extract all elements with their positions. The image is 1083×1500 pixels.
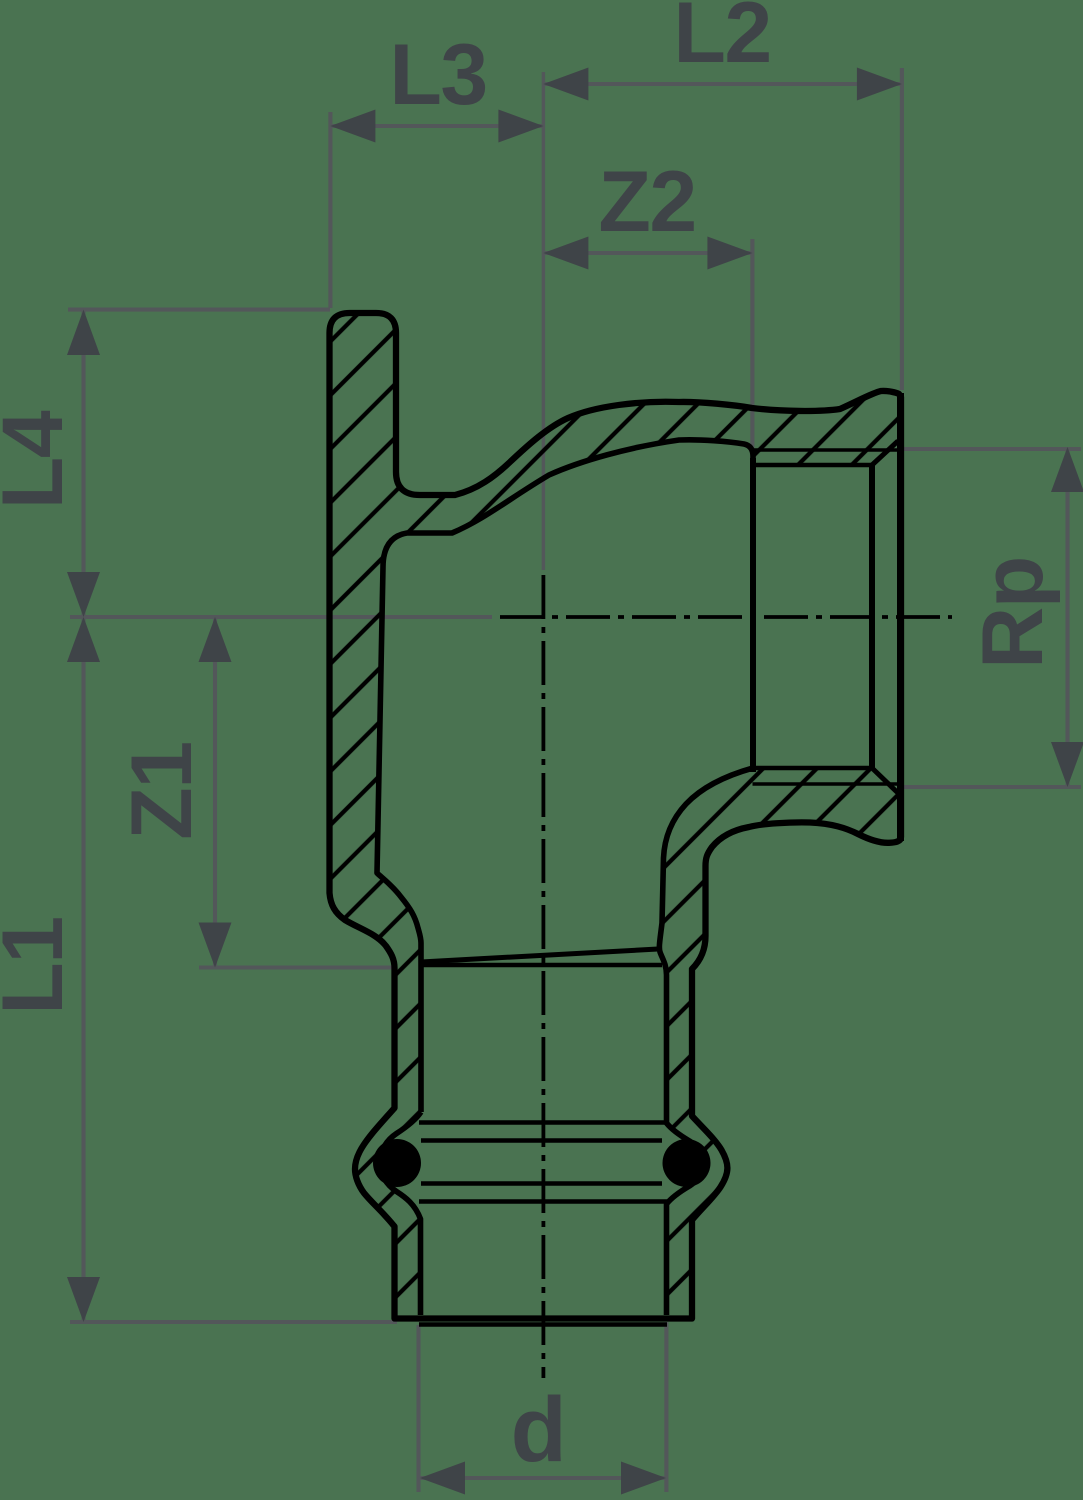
dim line L2 <box>543 82 902 86</box>
arrow d right <box>621 1462 666 1495</box>
centerline horizontal <box>500 615 952 619</box>
arrow L4 bottom (down) <box>67 572 100 617</box>
arrow L2 left <box>543 68 588 101</box>
arrow L1 bottom (down) <box>67 1277 100 1322</box>
arrow d left <box>420 1462 465 1495</box>
inner contour <box>377 440 753 1315</box>
thread major thin bottom <box>753 782 898 786</box>
ext line d right <box>664 1322 668 1492</box>
svg-text:Rp: Rp <box>965 557 1061 669</box>
ext line Z1 bottom <box>199 965 394 969</box>
groove line 4 <box>419 1199 667 1204</box>
bottom rim far edge <box>419 1322 667 1327</box>
dim line Z1 vertical <box>213 617 217 968</box>
ext line L3 left <box>328 112 332 308</box>
arrow L3 right <box>498 110 543 143</box>
cone near edge <box>421 963 662 968</box>
socket interior lines <box>753 393 901 841</box>
arrow Rp bottom (down) <box>1051 742 1083 787</box>
arrow Z1 top (up) <box>199 617 232 662</box>
arrow Z2 left <box>543 237 588 270</box>
arrow L4 top (up) <box>67 310 100 355</box>
ext line centerline level y617 <box>70 615 492 619</box>
ext line Rp bottom <box>899 785 1081 789</box>
arrow Z2 right <box>707 237 752 270</box>
dim line Rp <box>1065 447 1069 787</box>
dim line L1/L4 vertical <box>81 310 85 1322</box>
ext line Rp top <box>899 447 1081 451</box>
svg-text:Z2: Z2 <box>598 154 695 250</box>
arrow L2 right <box>857 68 902 101</box>
svg-text:Z1: Z1 <box>114 742 210 839</box>
ext/center vertical upper <box>542 72 545 570</box>
chamfer diagonal bottom <box>872 768 898 793</box>
o-ring right <box>663 1139 711 1187</box>
svg-text:L1: L1 <box>0 917 81 1014</box>
arrow L3 left <box>330 110 375 143</box>
section hatch region <box>330 313 902 1319</box>
dim line L3 <box>330 124 543 128</box>
svg-text:L4: L4 <box>0 410 81 509</box>
outer contour <box>330 313 902 1319</box>
end face <box>897 393 904 841</box>
socket left face <box>750 458 756 772</box>
ext line top (L4/L1 top) <box>68 308 330 312</box>
dim line Z2 <box>543 251 752 255</box>
o-ring left <box>373 1139 421 1187</box>
ext line L1 bottom <box>70 1320 397 1324</box>
svg-text:d: d <box>511 1379 566 1481</box>
chamfer vertical <box>869 465 875 768</box>
ext line d left <box>416 1325 420 1492</box>
ext line Z2 right <box>750 239 754 454</box>
groove line 1 <box>419 1120 667 1125</box>
arrow L1 top (up) <box>67 617 100 662</box>
press-port interior lines <box>419 949 667 1325</box>
groove line 2 <box>421 1138 662 1143</box>
arrow Rp top (up) <box>1051 447 1083 492</box>
centerline vertical <box>542 575 546 1378</box>
groove line 3 <box>421 1181 662 1186</box>
thread minor line top <box>753 463 872 468</box>
cone slant line <box>421 949 658 962</box>
svg-text:L2: L2 <box>673 0 770 81</box>
ext line L2 right <box>900 68 904 390</box>
arrow Z1 bottom (down) <box>199 923 232 968</box>
svg-text:L3: L3 <box>389 27 486 123</box>
thread minor line bottom <box>753 766 872 771</box>
thread major thin top <box>753 448 898 452</box>
dim line d <box>420 1476 666 1480</box>
chamfer diagonal top <box>872 441 898 465</box>
